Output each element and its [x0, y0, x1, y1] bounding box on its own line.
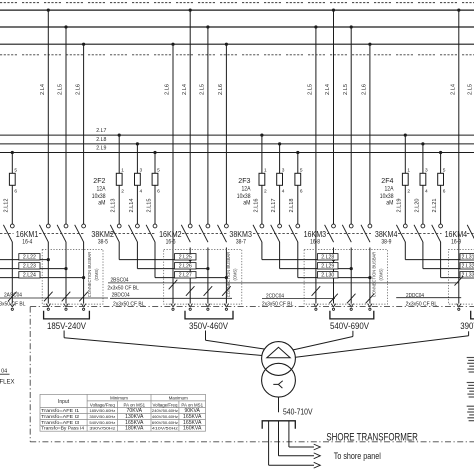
svg-text:10x38: 10x38 [92, 194, 106, 200]
fuse 2F4 element 5-6 wire 2.L21 [440, 153, 442, 225]
svg-text:16KM3: 16KM3 [304, 229, 327, 239]
svg-text:2.L12: 2.L12 [4, 199, 10, 213]
svg-text:2.L31: 2.L31 [462, 254, 474, 260]
svg-text:350V-460V: 350V-460V [189, 321, 228, 331]
svg-text:CONNECTION BUSBAR: CONNECTION BUSBAR [372, 252, 377, 298]
contactor 16KM1 pole x=83.6 [82, 224, 86, 228]
bus 2.L2 [0, 26, 474, 28]
wire tap 2.L4 at x=458.8 [458, 10, 460, 303]
cable hatch marks group 2 [169, 280, 178, 290]
svg-text:1: 1 [407, 167, 410, 173]
svg-text:3: 3 [140, 167, 143, 173]
svg-text:2x3x50 CF BL: 2x3x50 CF BL [107, 286, 139, 292]
contactor 16KM4 pole (clipped) [467, 225, 474, 242]
svg-text:2.L5: 2.L5 [200, 84, 206, 95]
svg-text:2.L23: 2.L23 [23, 263, 36, 269]
svg-text:1: 1 [264, 167, 267, 173]
svg-text:350V/50-60Hz: 350V/50-60Hz [89, 414, 115, 419]
svg-text:2.L4: 2.L4 [40, 84, 46, 95]
wire link 38KM4-16KM4 phase 3 [440, 242, 442, 278]
transformer T1 primary winding (delta) [262, 342, 296, 376]
wire label box 2.L29 [318, 263, 339, 269]
svg-text:4: 4 [140, 188, 143, 194]
wire label box 2.L30 [318, 272, 339, 278]
svg-text:38KM4: 38KM4 [375, 229, 398, 239]
voltage bracket x=329.9 [330, 311, 374, 319]
svg-text:Voltage/Freq: Voltage/Freq [90, 402, 115, 407]
wire tap 2.L6 at x=369.9 [369, 44, 371, 224]
svg-text:FLEX: FLEX [0, 379, 15, 386]
svg-text:16KM2: 16KM2 [159, 229, 182, 239]
svg-text:2.L4: 2.L4 [451, 84, 457, 95]
svg-text:5: 5 [14, 167, 17, 173]
svg-text:180KVA: 180KVA [125, 426, 144, 432]
svg-text:540-710V: 540-710V [283, 408, 313, 417]
svg-text:2BDC04: 2BDC04 [112, 293, 130, 299]
svg-text:460V/50-60Hz: 460V/50-60Hz [152, 414, 178, 419]
svg-text:2.L5: 2.L5 [467, 84, 473, 95]
wire tap 2.L6 at x=226.4 [225, 44, 227, 224]
svg-text:aM: aM [243, 201, 250, 207]
wire tap 2.L5 at x=66.0 [65, 27, 67, 224]
contactor 16KM1 pole x=66.0 [64, 224, 68, 228]
svg-text:(OMS): (OMS) [233, 268, 238, 281]
svg-text:2F3: 2F3 [238, 176, 250, 185]
svg-text:2DDC04: 2DDC04 [406, 293, 424, 299]
wire label box 2.L26 [175, 263, 197, 269]
cable hatch marks group 3 [312, 286, 321, 296]
svg-text:410V/50Hz: 410V/50Hz [152, 426, 178, 431]
svg-text:185V/50-60Hz: 185V/50-60Hz [89, 408, 115, 413]
svg-text:SHORE TRANSFORMER: SHORE TRANSFORMER [326, 431, 418, 443]
svg-text:2.L27: 2.L27 [179, 272, 192, 278]
wire tap 2.L5 at x=315.9 [315, 27, 317, 304]
svg-text:2.L4: 2.L4 [182, 84, 188, 95]
boundary dash-dot horizontal bottom [30, 441, 474, 443]
svg-text:2: 2 [264, 188, 267, 194]
bus 2.L9 [0, 152, 474, 154]
connection busbar box x=163.7 [164, 250, 242, 305]
fuse 2F3 element 1-2 wire 2.L16 [261, 135, 263, 224]
svg-text:5: 5 [443, 167, 446, 173]
svg-text:12A: 12A [385, 187, 394, 193]
contactor 16KM2 pole x=226.4 [225, 224, 229, 228]
contactor 16KM1 pole x=48.3 [46, 224, 50, 228]
transformer secondary output wire [278, 397, 280, 412]
bus 2.L8 [0, 143, 474, 145]
feeder line from 350V bracket to transformer [205, 331, 207, 341]
wire tap 2.L4 at x=48.3 [47, 10, 49, 224]
svg-text:540V-690V: 540V-690V [330, 321, 369, 331]
svg-text:04: 04 [1, 368, 7, 374]
fuse 2F2 element 3-4 wire 2.L14 [136, 144, 138, 224]
voltage bracket x=185.0 [185, 311, 233, 319]
svg-text:6: 6 [300, 188, 303, 194]
svg-text:CONNECTION BUSBAR: CONNECTION BUSBAR [87, 252, 92, 298]
contactor 38KM3 pole x=261.9 [260, 224, 264, 228]
wire label box 2.L22 [19, 254, 40, 260]
svg-text:16KM4: 16KM4 [445, 229, 468, 239]
svg-text:390V/50Hz: 390V/50Hz [89, 426, 115, 431]
svg-text:2.L20: 2.L20 [414, 199, 420, 213]
feeder line from 185V bracket to transformer [63, 331, 65, 338]
contactor 38KM4 pole x=440.6 [439, 224, 443, 228]
contactor 38KM2 pole x=155.0 [153, 224, 157, 228]
contactor 16KM3 pole x=369.9 [368, 224, 372, 228]
svg-text:Minimum: Minimum [110, 396, 128, 401]
svg-text:540V/50-60Hz: 540V/50-60Hz [89, 420, 115, 425]
svg-text:Transfo=AFE I1: Transfo=AFE I1 [41, 408, 80, 413]
wire link 38KM4-16KM4 phase 1 [404, 242, 406, 260]
wire tap 2.L6 at x=83.6 [83, 44, 85, 224]
svg-text:16-9: 16-9 [451, 240, 462, 246]
svg-text:390V-415V: 390V-415V [460, 321, 474, 331]
svg-text:185V-240V: 185V-240V [47, 321, 86, 331]
svg-text:Transfo=By Pass I4: Transfo=By Pass I4 [41, 426, 85, 431]
svg-text:Voltage/Freq: Voltage/Freq [152, 402, 177, 407]
svg-text:2.L9: 2.L9 [96, 146, 106, 152]
cable hatch marks group 1 [8, 292, 17, 302]
wire link 38KM2-16KM2 phase 3 [154, 242, 156, 278]
svg-text:aM: aM [98, 201, 105, 207]
svg-text:240V/50-60Hz: 240V/50-60Hz [152, 408, 178, 413]
wire label box 2.L25 [175, 254, 197, 260]
svg-text:2.L6: 2.L6 [75, 84, 81, 95]
wire 2.L12 output below 38KM1 pole [11, 242, 13, 304]
svg-text:6: 6 [157, 188, 160, 194]
svg-text:38KM3: 38KM3 [229, 229, 252, 239]
svg-text:3: 3 [425, 167, 428, 173]
transformer rating table [40, 394, 206, 431]
wire label box 2.L24 [19, 272, 40, 278]
svg-text:2.L15: 2.L15 [146, 199, 152, 213]
fuse 2F4 element 3-4 wire 2.L20 [422, 144, 424, 224]
wire label box 2.L27 [175, 272, 197, 278]
output bracket [262, 421, 295, 429]
mechanical linkage dashed line [0, 233, 14, 235]
svg-text:Maximum: Maximum [169, 396, 188, 401]
wire tap 2.L5 at x=207.9 [207, 27, 209, 224]
transformer T1 secondary winding (wye) [262, 363, 296, 397]
contactor 16KM2 pole x=190.2 [188, 224, 192, 228]
svg-text:4: 4 [425, 188, 428, 194]
svg-text:2.L16: 2.L16 [253, 199, 259, 213]
svg-text:2F2: 2F2 [93, 176, 105, 185]
contactor 16KM2 pole x=207.9 [206, 224, 210, 228]
voltage bracket x=470.7 [471, 311, 474, 319]
svg-text:2.L25: 2.L25 [179, 254, 192, 260]
voltage bracket x=43.6 [44, 311, 90, 319]
svg-text:6: 6 [443, 188, 446, 194]
svg-text:1: 1 [121, 167, 124, 173]
svg-text:2.L17: 2.L17 [271, 199, 277, 213]
svg-text:2F4: 2F4 [381, 176, 393, 185]
fuse 2F3 element 3-4 wire 2.L17 [279, 144, 281, 224]
contactor 38KM1 pole x=12.3 [10, 224, 14, 228]
terminal arrows [10, 304, 15, 307]
wire tap 2.L6 at x=173.0 [172, 44, 174, 303]
fuse 2F2 element 5-6 wire 2.L15 [154, 153, 156, 225]
wire link 38KM4-16KM4 phase 2 [422, 242, 424, 269]
contactor 16KM3 pole x=351.2 [349, 224, 353, 228]
svg-text:2.L24: 2.L24 [23, 272, 36, 278]
wire tap 2.L4 at x=190.2 [189, 10, 191, 224]
svg-text:Transfo=AFE I3: Transfo=AFE I3 [41, 420, 80, 425]
svg-text:38KM2: 38KM2 [91, 229, 114, 239]
svg-text:2.L18: 2.L18 [289, 199, 295, 213]
svg-text:Transfo=AFE I2: Transfo=AFE I2 [41, 414, 80, 419]
fuse 2F3 element 5-6 wire 2.L18 [297, 153, 299, 225]
feeder line from 540V bracket to transformer [352, 331, 354, 337]
bus 2.L1 [0, 9, 474, 11]
svg-text:16KM1: 16KM1 [16, 229, 39, 239]
svg-text:160KVA: 160KVA [183, 426, 202, 432]
contactor 38KM3 pole x=279.6 [278, 224, 282, 228]
shore feeder wire 1 [288, 421, 290, 447]
bus 2.L7 [0, 134, 474, 136]
svg-text:16-8: 16-8 [310, 240, 321, 246]
svg-text:2BSC04: 2BSC04 [111, 277, 129, 283]
svg-text:5: 5 [157, 167, 160, 173]
wire tap 2.L4 at x=333.5 [333, 10, 335, 224]
contactor 38KM3 pole x=297.8 [296, 224, 300, 228]
separator dashed line [0, 54, 474, 56]
svg-text:2ASC04: 2ASC04 [4, 292, 22, 298]
contactor 38KM2 pole x=137.4 [136, 224, 140, 228]
svg-text:2.L5: 2.L5 [308, 84, 314, 95]
wires 2.L22 2.L23 2.L24 from off-canvas 38KM1 to 16KM1 outputs [0, 259, 48, 261]
contactor 38KM2 pole x=119.2 [117, 224, 121, 228]
svg-text:2.L6: 2.L6 [165, 84, 171, 95]
svg-text:2.L4: 2.L4 [325, 84, 331, 95]
svg-text:2.L21: 2.L21 [432, 199, 438, 213]
svg-text:2: 2 [121, 188, 124, 194]
svg-text:To shore panel: To shore panel [334, 451, 381, 461]
svg-text:PA on MS1: PA on MS1 [123, 402, 145, 407]
svg-text:12A: 12A [97, 187, 106, 193]
wire tap 2.L5 at x=351.2 [350, 27, 352, 224]
wire label box 2.L23 [19, 263, 40, 269]
fuse 2F1 pole 5-6 wire 2.L12 [11, 153, 13, 225]
svg-text:2.L28: 2.L28 [321, 254, 334, 260]
svg-text:5: 5 [300, 167, 303, 173]
shore feeder wire 3 [268, 421, 270, 465]
svg-text:16-4: 16-4 [22, 240, 33, 246]
frame border top (dash-dot) [0, 2, 474, 4]
svg-text:aM: aM [386, 201, 393, 207]
svg-text:10x38: 10x38 [380, 194, 394, 200]
connection busbar box x=304.1 [304, 250, 387, 305]
svg-text:2.L6: 2.L6 [362, 84, 368, 95]
svg-text:(OMS): (OMS) [94, 268, 99, 281]
fuse 2F4 element 1-2 wire 2.L19 [404, 135, 406, 224]
svg-text:2.L8: 2.L8 [96, 137, 106, 143]
svg-text:16-6: 16-6 [166, 240, 177, 246]
svg-text:2.L22: 2.L22 [23, 254, 36, 260]
svg-text:38-7: 38-7 [236, 240, 247, 246]
svg-text:2.L32: 2.L32 [462, 263, 474, 269]
wire link 38KM2-16KM2 phase 1 [118, 242, 120, 260]
svg-text:(OMS): (OMS) [378, 268, 383, 281]
wire label box 2.L28 [318, 254, 339, 260]
contactor 38KM4 pole x=422.9 [421, 224, 425, 228]
svg-text:2.L6: 2.L6 [218, 84, 224, 95]
wire label box 2.L31 [460, 254, 474, 260]
wire link 38KM3-16KM3 phase 2 [279, 242, 281, 269]
connection busbar box x=448.4 [448, 250, 474, 305]
wire label box 2.L33 [460, 272, 474, 278]
svg-text:2.L13: 2.L13 [111, 199, 117, 213]
svg-text:2.L19: 2.L19 [397, 199, 403, 213]
svg-text:2.L33: 2.L33 [462, 272, 474, 278]
wire link 38KM3-16KM3 phase 1 [261, 242, 263, 260]
connection busbar box x=42.2 [42, 250, 103, 305]
svg-text:2.L30: 2.L30 [321, 272, 334, 278]
wire label box 2.L32 [460, 263, 474, 269]
bus 2.L3 [0, 43, 474, 45]
svg-text:2.L29: 2.L29 [321, 263, 334, 269]
contactor 38KM4 pole x=405.3 [403, 224, 407, 228]
wire link 38KM3-16KM3 phase 3 [297, 242, 299, 278]
svg-text:2.L7: 2.L7 [96, 128, 106, 134]
fuse 2F2 element 1-2 wire 2.L13 [118, 135, 120, 224]
cable hatch mark group 4 [455, 276, 464, 286]
svg-text:Input: Input [58, 399, 70, 405]
contactor 16KM3 pole x=333.5 [332, 224, 336, 228]
svg-text:6: 6 [14, 188, 17, 194]
svg-text:PA on MS1: PA on MS1 [181, 402, 203, 407]
bypass wires descending (unswitched taps) [172, 43, 174, 45]
svg-text:2: 2 [407, 188, 410, 194]
svg-text:12A: 12A [242, 187, 251, 193]
shore feeder wire 2 [278, 421, 280, 456]
svg-text:2.L14: 2.L14 [129, 199, 135, 213]
svg-text:2.L5: 2.L5 [343, 84, 349, 95]
wire link 38KM2-16KM2 phase 2 [136, 242, 138, 269]
clipped text blocks at right edge [467, 357, 474, 359]
svg-text:38-9: 38-9 [381, 240, 392, 246]
boundary dash-dot horizontal (shore zone top) [30, 306, 474, 308]
boundary dash-dot vertical [29, 307, 31, 442]
svg-text:690V/50-60Hz: 690V/50-60Hz [152, 420, 178, 425]
svg-text:2.L26: 2.L26 [179, 263, 192, 269]
svg-text:4: 4 [282, 188, 285, 194]
svg-text:3: 3 [282, 167, 285, 173]
svg-text:10x38: 10x38 [237, 194, 251, 200]
feeder line from 390V bracket to transformer [468, 331, 470, 336]
svg-text:2x3x50 CF BL: 2x3x50 CF BL [0, 301, 26, 307]
svg-text:2.L5: 2.L5 [58, 84, 64, 95]
svg-text:38-5: 38-5 [98, 240, 109, 246]
